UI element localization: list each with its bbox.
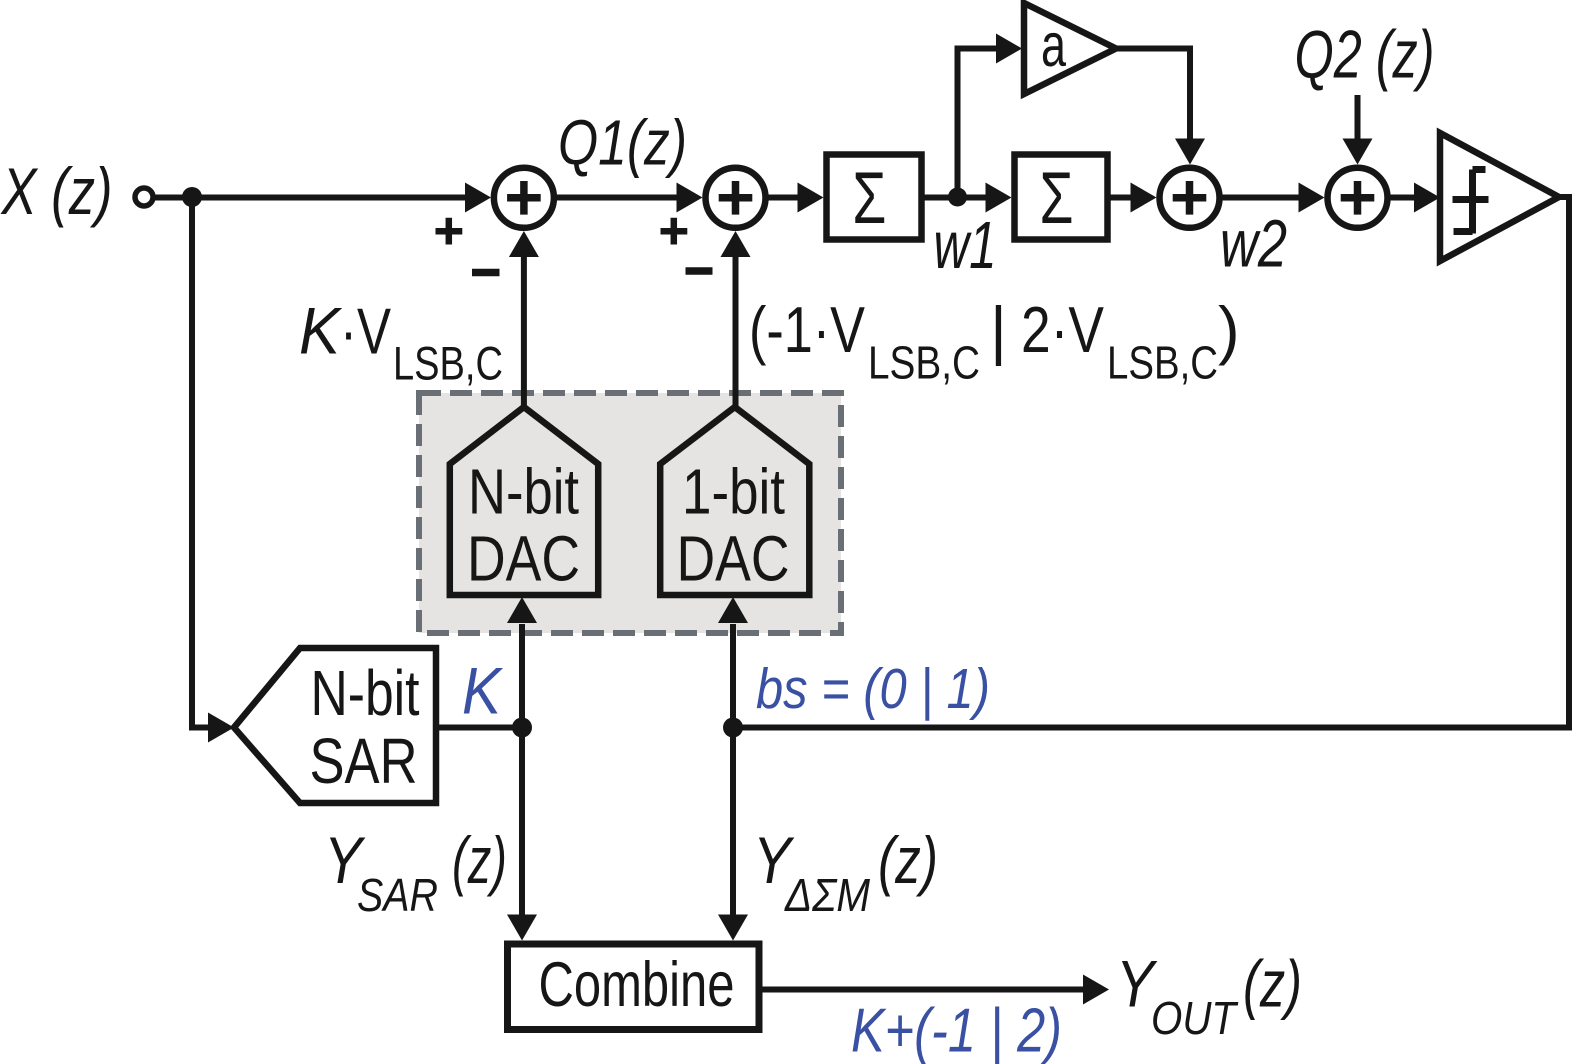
svg-text:(-1·V: (-1·V: [749, 293, 866, 366]
svg-text:LSB,C: LSB,C: [868, 337, 980, 389]
svg-text:w2: w2: [1220, 207, 1287, 282]
svg-text:Combine: Combine: [539, 950, 735, 1020]
svg-text:SAR: SAR: [310, 725, 418, 797]
svg-text:LSB,C: LSB,C: [393, 337, 503, 390]
svg-text:K: K: [462, 654, 504, 728]
svg-text:): ): [1218, 293, 1240, 366]
svg-text:Σ: Σ: [852, 158, 886, 239]
svg-text:K: K: [299, 294, 343, 368]
svg-text:a: a: [1041, 11, 1066, 79]
svg-text:|: |: [990, 293, 1007, 366]
svg-text:·V: ·V: [340, 295, 392, 368]
svg-text:Σ: Σ: [1040, 158, 1074, 239]
svg-text:SAR: SAR: [357, 869, 438, 921]
svg-text:X (z): X (z): [0, 154, 112, 228]
svg-text:2·V: 2·V: [1021, 293, 1105, 366]
svg-text:N-bit: N-bit: [468, 456, 579, 528]
svg-text:Q1(z): Q1(z): [558, 107, 687, 179]
svg-text:DAC: DAC: [677, 523, 790, 595]
svg-text:OUT: OUT: [1151, 992, 1239, 1044]
svg-text:K+(-1 | 2): K+(-1 | 2): [851, 997, 1062, 1064]
svg-text:N-bit: N-bit: [311, 657, 420, 729]
svg-text:LSB,C: LSB,C: [1107, 337, 1218, 389]
svg-text:1-bit: 1-bit: [682, 456, 785, 528]
svg-text:(z): (z): [1243, 947, 1302, 1021]
svg-text:ΔΣΜ: ΔΣΜ: [784, 869, 870, 921]
svg-text:DAC: DAC: [467, 523, 580, 595]
svg-text:w1: w1: [934, 208, 997, 283]
svg-text:Q2 (z): Q2 (z): [1295, 17, 1435, 93]
svg-text:(z): (z): [878, 823, 938, 897]
svg-text:(z): (z): [452, 823, 507, 897]
svg-text:bs = (0 | 1): bs = (0 | 1): [756, 657, 990, 721]
